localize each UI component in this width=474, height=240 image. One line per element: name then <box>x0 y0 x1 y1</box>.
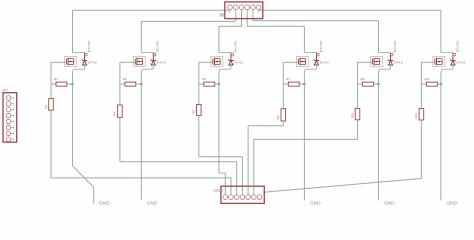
svg-text:R8: R8 <box>276 115 280 119</box>
svg-text:IRLZ44Z: IRLZ44Z <box>393 40 397 52</box>
transistor Q2 IRLZ44Z <box>133 40 166 72</box>
svg-text:R2: R2 <box>44 105 48 109</box>
svg-text:GND: GND <box>99 200 110 206</box>
wire top rail to Q1 drain <box>73 9 231 11</box>
wire SV1 pin5 to Q5 drain <box>252 13 254 21</box>
transistor Q4 IRLZ44Z <box>296 40 329 72</box>
wire R4 to SV2 pin3 <box>119 117 121 161</box>
svg-text:R10: R10 <box>350 112 354 118</box>
junction at Q2 source / R3 <box>140 83 142 85</box>
wire R5 junction to R6 <box>198 84 200 104</box>
wire R12 to SV2 pin7 (diagonal) <box>420 120 422 178</box>
junction at Q6 source / R11 <box>440 83 442 85</box>
resistor R5 <box>199 77 219 86</box>
wire R11 junction to R12 <box>420 84 422 108</box>
wire gate of Q3 <box>199 61 213 63</box>
svg-text:R3: R3 <box>123 77 127 81</box>
transistor Q5 IRLZ44Z <box>371 40 404 72</box>
wire R9 junction to R10 <box>357 84 359 108</box>
wire top rail to Q6 drain <box>259 9 441 11</box>
resistor R11 <box>421 77 441 86</box>
resistor R8 <box>276 109 286 121</box>
wire Q1 source to ground <box>72 72 74 166</box>
svg-text:GND: GND <box>214 188 224 193</box>
connector SV1 <box>220 2 263 19</box>
svg-text:R4: R4 <box>113 112 117 116</box>
resistor R9 <box>358 77 379 86</box>
svg-text:IRLZ44Z: IRLZ44Z <box>233 40 237 52</box>
svg-text:E44Z: E44Z <box>235 61 244 65</box>
transistor Q6 IRLZ44Z <box>433 40 466 72</box>
svg-text:GND: GND <box>446 200 457 206</box>
svg-text:GND: GND <box>147 200 158 206</box>
resistor R3 <box>120 77 141 86</box>
svg-text:E44Z: E44Z <box>88 61 97 65</box>
resistor R4 <box>113 105 123 117</box>
wire SV1 pin3 to Q3 drain <box>241 13 243 27</box>
resistor R1 <box>51 77 73 86</box>
wire R3 junction to R4 <box>119 84 121 105</box>
wire SV1 pin4 to Q4 drain <box>246 13 248 27</box>
wire Q4 source to ground <box>303 72 305 200</box>
resistor R12 <box>414 109 424 121</box>
wire R6 to SV2 pin4 <box>198 115 200 156</box>
connector SV2 <box>221 185 266 203</box>
svg-text:IRLZ44Z: IRLZ44Z <box>319 40 323 52</box>
wire Q3 source to SV2 pin1 GND <box>218 72 220 173</box>
wire R8 to SV2 pin5 <box>282 121 284 126</box>
svg-text:R11: R11 <box>424 77 430 81</box>
svg-text:E44Z: E44Z <box>157 61 166 65</box>
resistor R10 <box>350 109 360 120</box>
wire R7 junction to R8 <box>282 84 284 109</box>
wire R1 junction to R2 <box>50 84 52 99</box>
svg-text:R7: R7 <box>286 77 290 81</box>
svg-text:R5: R5 <box>202 77 206 81</box>
junction at Q4 source / R7 <box>303 83 305 85</box>
wire SV1 pin2 to Q2 drain <box>235 13 237 22</box>
wire gate of Q6 <box>421 61 434 63</box>
transistor Q1 IRLZ44Z <box>65 40 98 72</box>
svg-text:JP1: JP1 <box>2 88 8 92</box>
connector JP1 <box>2 88 16 142</box>
wire Q2 source to ground <box>140 72 142 200</box>
svg-text:IRLZ44Z: IRLZ44Z <box>156 40 160 52</box>
resistor R7 <box>283 77 304 86</box>
svg-text:IRLZ44Z: IRLZ44Z <box>455 40 459 52</box>
wire gate of Q5 <box>358 61 373 63</box>
resistor R2 <box>44 99 54 111</box>
svg-text:E44Z: E44Z <box>320 61 329 65</box>
wire gate of Q1 <box>51 61 66 63</box>
junction at Q5 source / R9 <box>377 83 379 85</box>
svg-text:GND: GND <box>310 200 321 206</box>
svg-text:R6: R6 <box>192 110 196 114</box>
svg-text:R12: R12 <box>414 113 418 119</box>
svg-text:R1: R1 <box>54 77 58 81</box>
svg-text:E44Z: E44Z <box>394 61 403 65</box>
transistor Q3 IRLZ44Z <box>211 40 244 72</box>
wire Q6 source to ground <box>440 72 442 200</box>
junction at Q1 source / R1 <box>71 83 73 85</box>
svg-text:IRLZ44Z: IRLZ44Z <box>87 40 91 52</box>
junction at Q3 source / R5 <box>218 83 220 85</box>
resistor R6 <box>192 105 202 116</box>
svg-text:R9: R9 <box>361 77 365 81</box>
wire R10 to SV2 pin6 <box>357 120 359 140</box>
wire Q5 source to ground <box>378 72 380 200</box>
wire gate of Q2 <box>120 61 135 63</box>
svg-text:GND: GND <box>384 200 395 206</box>
wire R2 to SV2 pin2 <box>50 110 52 178</box>
svg-text:E44Z: E44Z <box>457 61 466 65</box>
wire gate of Q4 <box>283 61 298 63</box>
